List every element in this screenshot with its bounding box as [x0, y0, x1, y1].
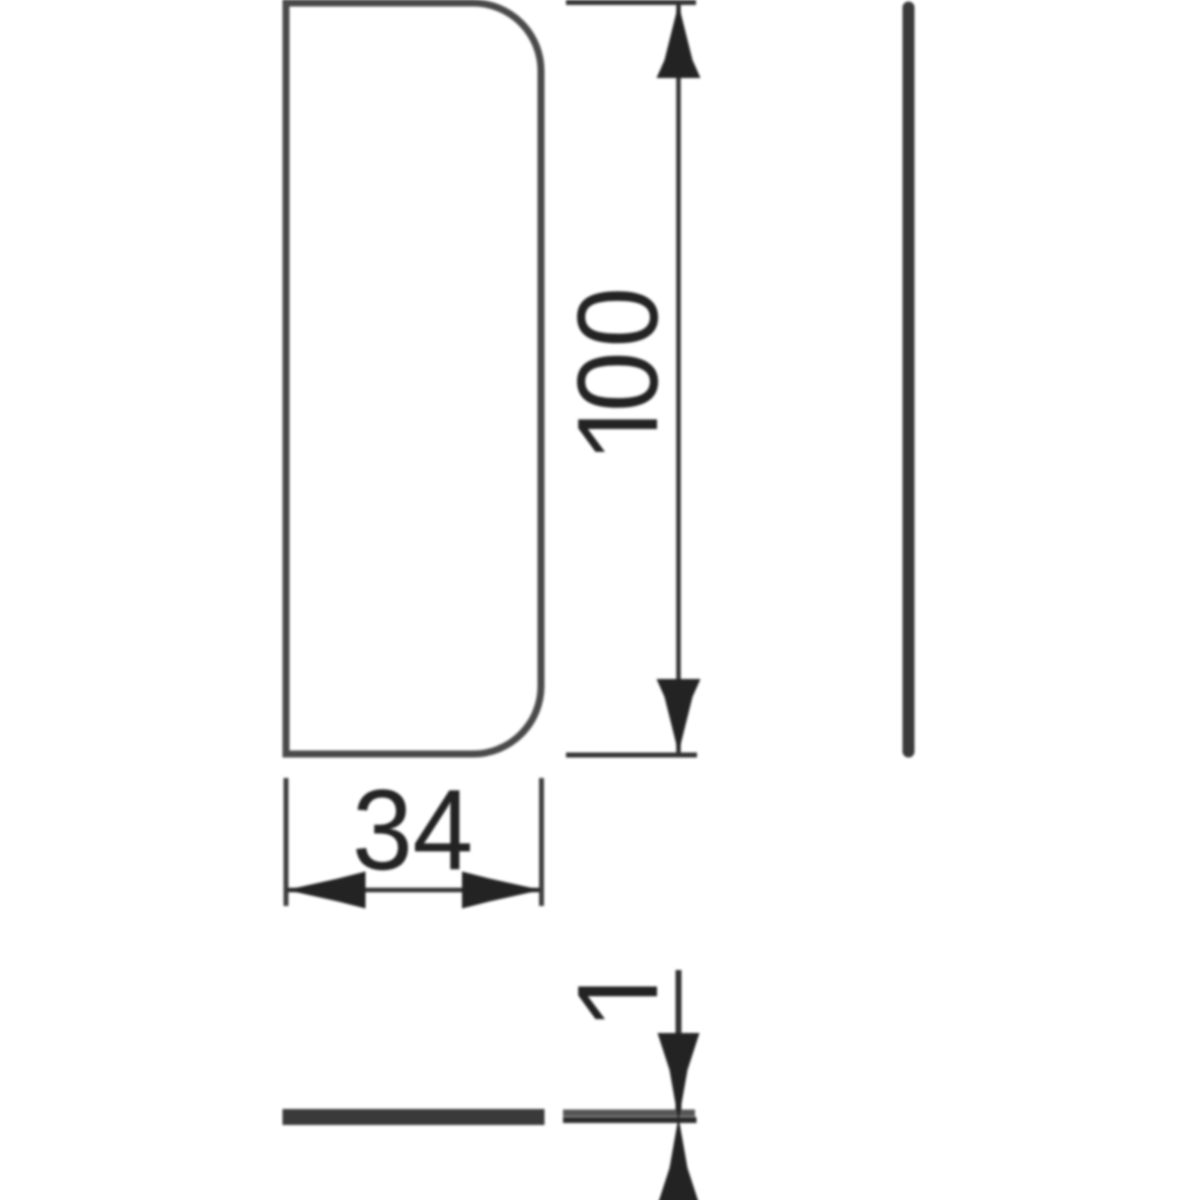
dim text 34 : digit 3	[356, 789, 408, 870]
dimension line 100	[676, 4, 681, 753]
plate side view line	[903, 8, 915, 752]
dimension line 34	[287, 888, 540, 893]
extension line bottom (100 dim)	[566, 753, 697, 758]
arrowhead 34 right	[462, 872, 541, 909]
dim text 1	[578, 987, 657, 1020]
extension segment gray (1 dim)	[563, 1110, 695, 1117]
arrowhead 1 bottom (pointing up)	[658, 1117, 700, 1200]
extension segment dark (1 dim)	[563, 1117, 697, 1123]
plate front view outline	[286, 3, 541, 754]
dimension line 1 (upper part)	[676, 970, 682, 1110]
arrowhead 34 left	[287, 872, 366, 909]
extension line top (100 dim)	[566, 0, 696, 5]
dim text 100 : digit 1	[578, 419, 657, 452]
dim text 100 : digit 0 (middle)	[577, 356, 658, 408]
arrowhead 1 top (pointing down)	[658, 1033, 700, 1121]
dim text 100 : digit 0 (top)	[577, 291, 658, 343]
plate bottom edge view (1mm thick)	[283, 1109, 545, 1125]
arrowhead 100 bottom	[657, 679, 701, 753]
extension line left (34 dim)	[284, 778, 289, 906]
dim text 34 : digit 4	[415, 790, 470, 869]
extension line right (34 dim)	[539, 778, 544, 906]
arrowhead 100 top	[657, 4, 701, 78]
